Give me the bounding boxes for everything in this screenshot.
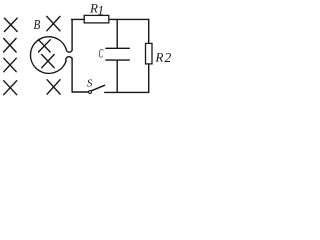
field mark x r1c1	[4, 18, 17, 31]
field mark x r3c1	[4, 58, 16, 71]
wire capacitor top branch	[116, 19, 118, 48]
resistor R2 box	[146, 43, 153, 64]
switch contact circle	[89, 91, 92, 94]
wire bottom lead from coil down	[71, 58, 73, 92]
svg-text:2: 2	[165, 50, 172, 65]
switch S lever	[92, 85, 105, 90]
field mark x r4c1	[4, 81, 17, 95]
field mark x r1c3	[47, 16, 60, 30]
field mark x in circle lower	[42, 55, 55, 68]
svg-text:R: R	[155, 49, 164, 64]
loop coil circle	[30, 37, 66, 74]
svg-text:C: C	[99, 47, 104, 61]
wire R2 branch upper	[148, 19, 150, 43]
background	[0, 0, 178, 102]
resistor R1 box	[84, 15, 109, 23]
coil bottom hook	[66, 57, 72, 62]
field mark x r2c1	[4, 38, 17, 52]
field mark x r4c3	[47, 80, 60, 94]
svg-text:B: B	[34, 18, 41, 33]
wire R2 branch lower	[148, 64, 150, 92]
capacitor C plates	[106, 48, 129, 60]
wire capacitor bottom branch	[116, 60, 118, 92]
field mark x in circle upper	[39, 40, 51, 52]
svg-text:S: S	[87, 77, 93, 89]
coil top hook	[66, 50, 72, 53]
wire to switch contact	[72, 91, 89, 93]
svg-text:1: 1	[98, 2, 105, 17]
wire top lead from coil up	[71, 19, 73, 50]
wire bottom bus	[105, 91, 149, 93]
wire top rail	[72, 18, 149, 20]
